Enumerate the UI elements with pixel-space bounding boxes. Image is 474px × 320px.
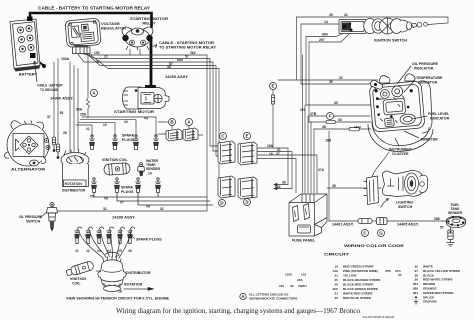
svg-text:30: 30 bbox=[338, 118, 342, 122]
leader cable-battery-to-ground label with arrow bbox=[33, 61, 37, 82]
wire riser x296 top bbox=[296, 17, 298, 80]
svg-text:286: 286 bbox=[326, 139, 332, 143]
ignition coil (hi-tension view) bbox=[65, 261, 94, 278]
svg-text:FUSE PANEL: FUSE PANEL bbox=[292, 239, 316, 243]
connector pair C/E right block bbox=[238, 142, 257, 165]
ground symbol row bbox=[414, 299, 418, 304]
svg-text:14300 ASSY.: 14300 ASSY. bbox=[50, 96, 74, 101]
svg-text:AMMETER: AMMETER bbox=[420, 138, 438, 142]
wire long riser x308 bbox=[307, 116, 309, 193]
svg-text:VIEW SHOWING HI-TENSION CIRCUI: VIEW SHOWING HI-TENSION CIRCUIT FOR 6 CY… bbox=[66, 297, 170, 301]
wire: coil feed risers bbox=[70, 62, 78, 155]
starting motor relay bbox=[122, 27, 153, 50]
svg-text:SHOWN INDICATE CONNECTORS: SHOWN INDICATE CONNECTORS bbox=[249, 297, 297, 301]
svg-text:G: G bbox=[379, 231, 383, 236]
svg-text:286: 286 bbox=[413, 287, 418, 291]
distributor (engine view) bbox=[61, 150, 89, 187]
svg-text:26: 26 bbox=[335, 283, 339, 287]
svg-text:14: 14 bbox=[324, 20, 328, 24]
svg-text:262: 262 bbox=[190, 51, 196, 55]
leader spark plugs 6cyl label bbox=[131, 236, 136, 239]
leader oil pressure indicator bbox=[397, 66, 411, 84]
svg-text:16: 16 bbox=[118, 290, 122, 294]
svg-text:E: E bbox=[272, 84, 275, 89]
wire 38 stub to x329 bbox=[320, 129, 329, 131]
svg-text:WHITE: WHITE bbox=[423, 265, 433, 269]
svg-text:35: 35 bbox=[60, 111, 64, 115]
svg-text:INDICATOR: INDICATOR bbox=[414, 67, 434, 71]
svg-text:38: 38 bbox=[282, 181, 286, 185]
svg-text:152A: 152A bbox=[285, 273, 293, 277]
svg-text:21: 21 bbox=[335, 274, 339, 278]
connector circle E bbox=[270, 83, 277, 90]
svg-text:#7: #7 bbox=[120, 201, 124, 205]
svg-text:STARTING MOTOR: STARTING MOTOR bbox=[114, 109, 154, 114]
svg-text:#8: #8 bbox=[146, 205, 150, 209]
connector circle E bbox=[244, 133, 251, 140]
wire: thick cable relay to starting motor bbox=[150, 40, 153, 87]
instrument cluster bezel bbox=[369, 81, 425, 132]
wire: bus line 57 bbox=[83, 53, 218, 146]
svg-text:BLACK-ORANGE STRIPE: BLACK-ORANGE STRIPE bbox=[343, 278, 380, 282]
svg-text:26A: 26A bbox=[297, 278, 303, 282]
svg-text:30: 30 bbox=[334, 101, 338, 105]
svg-text:#2: #2 bbox=[86, 249, 90, 253]
wire long riser x311 bbox=[310, 122, 312, 193]
svg-text:RED-GREEN STRIPE: RED-GREEN STRIPE bbox=[343, 265, 374, 269]
svg-text:30: 30 bbox=[415, 265, 419, 269]
svg-text:#2: #2 bbox=[103, 123, 107, 127]
wire riser x306 bbox=[305, 37, 307, 106]
wire fuel sender line bbox=[329, 220, 447, 222]
wire 35 fuse panel to lighting switch bbox=[327, 187, 381, 189]
svg-text:31: 31 bbox=[160, 207, 164, 211]
svg-text:INDICATOR: INDICATOR bbox=[430, 117, 450, 121]
wire riser x309 bbox=[308, 42, 310, 122]
wire cluster to lighting switch curve bbox=[372, 152, 389, 177]
plug wire bus #1 bbox=[76, 125, 92, 136]
svg-text:CABLE - BATTERY TO STARTING MO: CABLE - BATTERY TO STARTING MOTOR RELAY bbox=[38, 6, 150, 11]
wire 21 pair1 to riser bbox=[257, 152, 292, 189]
instrument cluster dash swoosh outer bbox=[368, 124, 433, 151]
svg-text:PLUGS: PLUGS bbox=[121, 190, 134, 194]
svg-text:BROWN: BROWN bbox=[423, 282, 436, 286]
svg-text:37: 37 bbox=[96, 60, 100, 64]
svg-text:ORANGE: ORANGE bbox=[423, 287, 437, 291]
svg-text:SWITCH: SWITCH bbox=[398, 205, 413, 209]
svg-text:#1: #1 bbox=[86, 127, 90, 131]
svg-text:SENDER: SENDER bbox=[146, 167, 161, 171]
wire top line 14 bbox=[301, 23, 340, 25]
wire: bus line 38 bbox=[88, 53, 222, 182]
fusible link riser 37 bbox=[52, 137, 55, 152]
svg-text:BLACK-GREEN STRIPE: BLACK-GREEN STRIPE bbox=[343, 287, 378, 291]
svg-text:14A: 14A bbox=[332, 269, 338, 273]
wire vertical 286 x329 down bbox=[328, 131, 330, 221]
wire: thick cable battery to starting motor relay bbox=[30, 13, 152, 27]
svg-text:#4: #4 bbox=[107, 249, 111, 253]
svg-text:SPARK: SPARK bbox=[122, 134, 135, 138]
svg-text:RED-WHITE STRIPE: RED-WHITE STRIPE bbox=[423, 278, 453, 282]
svg-text:14289 ASSY.: 14289 ASSY. bbox=[112, 215, 136, 220]
svg-text:SPARK: SPARK bbox=[121, 186, 134, 190]
svg-text:14290 ASSY.: 14290 ASSY. bbox=[165, 74, 189, 79]
svg-text:D: D bbox=[245, 200, 248, 205]
wires to row 2 plug tips bbox=[94, 193, 158, 206]
wire: resistor wire drop with zigzag bbox=[87, 55, 90, 118]
svg-text:37A: 37A bbox=[395, 269, 401, 273]
water temperature sender bbox=[138, 163, 145, 176]
connector circle A bbox=[186, 119, 193, 126]
svg-text:IGNITION COIL: IGNITION COIL bbox=[102, 158, 128, 162]
svg-text:38: 38 bbox=[167, 65, 171, 69]
resistor capsule line y129 bbox=[349, 127, 360, 130]
wire 37 pair1 riser to fuse panel bbox=[257, 155, 317, 193]
svg-text:SWITCH: SWITCH bbox=[26, 220, 41, 224]
svg-text:REGULATOR: REGULATOR bbox=[101, 26, 126, 31]
wire: bus line 604 bbox=[77, 53, 218, 151]
svg-text:F: F bbox=[329, 114, 332, 119]
distributor cap leads 6cyl bbox=[79, 230, 104, 259]
svg-text:THRU: THRU bbox=[298, 284, 307, 288]
svg-text:BLACK-RED STRIPE: BLACK-RED STRIPE bbox=[343, 283, 373, 287]
distributor (hi-tension view) bbox=[98, 256, 126, 292]
plug wire bus #4 bbox=[82, 117, 156, 136]
svg-text:30: 30 bbox=[290, 284, 294, 288]
voltage regulator bbox=[65, 18, 101, 47]
arrowheads into connector D pair bbox=[274, 183, 277, 190]
svg-text:#6: #6 bbox=[104, 197, 108, 201]
svg-text:GROUND: GROUND bbox=[423, 300, 438, 304]
wire line y84 to cluster bbox=[301, 83, 373, 85]
connector circle G bbox=[378, 230, 385, 237]
svg-text:BLACK-YELLOW STRIPE: BLACK-YELLOW STRIPE bbox=[423, 269, 460, 273]
svg-text:31: 31 bbox=[335, 292, 339, 296]
svg-text:31: 31 bbox=[103, 207, 107, 211]
plug wire bus #3 bbox=[80, 120, 136, 136]
connector circle A bbox=[91, 90, 98, 97]
svg-text:RED-BLUE STRIPE: RED-BLUE STRIPE bbox=[343, 296, 371, 300]
fuse panel bbox=[289, 194, 327, 236]
svg-text:152A: 152A bbox=[354, 125, 362, 129]
svg-text:SPLICE: SPLICE bbox=[423, 295, 434, 299]
connector pair D right block bbox=[238, 177, 257, 199]
instrument cluster mounting tabs bbox=[380, 76, 390, 83]
svg-text:INSTRUMENT: INSTRUMENT bbox=[389, 148, 413, 152]
wire oil pressure switch to line 31 bbox=[52, 206, 57, 211]
fuel tank sender bbox=[446, 216, 466, 229]
wire line 38 y129 to cluster bbox=[314, 128, 371, 130]
svg-text:297: 297 bbox=[279, 284, 284, 288]
svg-text:E: E bbox=[246, 134, 249, 139]
svg-text:30A: 30A bbox=[378, 97, 384, 101]
svg-text:Wiring diagram for the ignitio: Wiring diagram for the ignition, startin… bbox=[116, 306, 360, 315]
svg-text:57: 57 bbox=[185, 55, 189, 59]
svg-text:TEMPERATURE: TEMPERATURE bbox=[416, 76, 443, 80]
wire line 37B y116 to cluster bbox=[309, 115, 370, 117]
svg-text:39: 39 bbox=[329, 80, 333, 84]
wire 16A pair1 to riser bbox=[257, 148, 288, 185]
svg-text:37: 37 bbox=[415, 269, 419, 273]
cluster top-left terminal blob bbox=[370, 80, 382, 89]
wire: bus line 57b bbox=[86, 53, 218, 156]
connector pair C/E left block bbox=[218, 141, 235, 164]
wire long riser x305 bbox=[304, 105, 306, 193]
wire: bus line 152 bbox=[80, 53, 207, 211]
starting motor bbox=[123, 85, 170, 109]
svg-text:153A: 153A bbox=[61, 57, 70, 61]
wire from plug bus to circled B bbox=[158, 121, 168, 123]
svg-text:#6: #6 bbox=[128, 249, 132, 253]
svg-text:16A: 16A bbox=[267, 144, 274, 148]
lighting switch pointer arrow bbox=[381, 199, 389, 208]
svg-text:37: 37 bbox=[276, 152, 280, 156]
fusible link riser 35 bbox=[56, 144, 59, 159]
svg-text:ROTATION: ROTATION bbox=[65, 182, 83, 186]
svg-text:IGNITION: IGNITION bbox=[70, 277, 86, 281]
svg-text:37: 37 bbox=[47, 115, 51, 119]
leader arrow cable-starting-motor label bbox=[153, 45, 157, 48]
capsule on fuel line bbox=[358, 219, 372, 224]
spark plugs row 1 (#1-#4) bbox=[89, 135, 95, 150]
wire pair1 4th bbox=[257, 159, 296, 194]
svg-text:262: 262 bbox=[413, 282, 418, 286]
svg-text:LIGHTING: LIGHTING bbox=[396, 201, 413, 205]
svg-text:16: 16 bbox=[335, 265, 339, 269]
svg-text:PINK (RESISTOR WIRE): PINK (RESISTOR WIRE) bbox=[343, 269, 378, 273]
svg-text:OIL PRESSURE: OIL PRESSURE bbox=[19, 215, 43, 219]
wire line y80 to cluster bbox=[278, 79, 378, 81]
svg-text:57: 57 bbox=[440, 226, 444, 230]
connector circle B bbox=[169, 119, 176, 126]
arrow wire 16 bbox=[148, 288, 154, 291]
connector circle D bbox=[219, 200, 226, 207]
voltage regulator connector bbox=[73, 47, 91, 54]
ignition coil (engine view) bbox=[104, 163, 131, 176]
ignition switch bbox=[339, 18, 427, 34]
svg-text:SENDER: SENDER bbox=[448, 211, 463, 215]
instrument cluster back panel bbox=[420, 81, 432, 133]
svg-text:39: 39 bbox=[329, 13, 333, 17]
oil pressure switch bbox=[47, 202, 58, 231]
splice symbol row bbox=[415, 296, 417, 298]
svg-text:26: 26 bbox=[63, 131, 67, 135]
svg-text:DISTRIBUTOR: DISTRIBUTOR bbox=[62, 189, 86, 193]
svg-text:14405 ASSY.: 14405 ASSY. bbox=[397, 223, 419, 227]
svg-text:#1: #1 bbox=[75, 249, 79, 253]
svg-text:26A: 26A bbox=[76, 108, 83, 112]
spark plugs 6-cyl view bbox=[74, 227, 81, 244]
wire hi-tension 16 output bbox=[124, 288, 148, 290]
svg-text:286: 286 bbox=[434, 217, 440, 221]
spark plugs row 2 (#5-#8) bbox=[91, 178, 97, 193]
wire top line 39-21 to ignition switch bbox=[297, 17, 449, 25]
svg-text:37B: 37B bbox=[310, 112, 317, 116]
svg-text:#5: #5 bbox=[118, 249, 122, 253]
svg-text:37B: 37B bbox=[385, 269, 391, 273]
wire 31 long line bbox=[57, 210, 207, 212]
wire long riser x314 bbox=[313, 129, 315, 193]
svg-text:27A: 27A bbox=[318, 168, 325, 172]
svg-text:152: 152 bbox=[94, 51, 100, 55]
connector circle A bbox=[240, 293, 246, 299]
svg-text:297: 297 bbox=[300, 108, 306, 112]
svg-text:ROTATION: ROTATION bbox=[124, 283, 143, 287]
svg-text:39: 39 bbox=[415, 278, 419, 282]
alternator bbox=[4, 121, 50, 167]
svg-text:904: 904 bbox=[413, 291, 418, 295]
svg-text:32: 32 bbox=[335, 296, 339, 300]
svg-text:OIL PRESSURE: OIL PRESSURE bbox=[412, 62, 439, 66]
wire 904 to ignition switch bbox=[306, 33, 344, 37]
svg-text:25: 25 bbox=[335, 278, 339, 282]
wire line 30 resistor y122 to cluster bbox=[309, 121, 371, 123]
wire long riser x302 bbox=[302, 55, 304, 193]
svg-text:FUEL LEVEL: FUEL LEVEL bbox=[428, 112, 450, 116]
connector circle C bbox=[220, 133, 227, 140]
svg-text:57: 57 bbox=[398, 273, 402, 277]
svg-text:RELAY: RELAY bbox=[142, 21, 156, 26]
svg-text:DISTRIBUTOR: DISTRIBUTOR bbox=[126, 271, 151, 275]
leader fuel level indicator bbox=[412, 116, 427, 119]
svg-text:B: B bbox=[170, 120, 173, 125]
svg-text:#3: #3 bbox=[97, 249, 101, 253]
plug wire bus #2 bbox=[78, 122, 115, 136]
connector B block (engine harness) bbox=[166, 129, 182, 141]
wire ground cable battery bbox=[33, 57, 43, 65]
svg-text:WHITE-RED STRIPE: WHITE-RED STRIPE bbox=[343, 292, 373, 296]
connector A block (engine harness) bbox=[183, 128, 198, 141]
svg-text:152: 152 bbox=[301, 273, 306, 277]
svg-text:ALTERNATOR: ALTERNATOR bbox=[11, 167, 45, 172]
connector pair D left block bbox=[218, 176, 235, 198]
fuse on circled-E drop bbox=[272, 95, 275, 104]
wire coil2 to distributor2 bbox=[96, 270, 100, 272]
battery bbox=[10, 17, 46, 72]
svg-text:14401 ASSY.: 14401 ASSY. bbox=[332, 223, 354, 227]
lighting switch bbox=[382, 171, 427, 197]
wire riser x301 bbox=[300, 24, 302, 84]
svg-text:25A: 25A bbox=[80, 113, 87, 117]
svg-text:INDICATOR: INDICATOR bbox=[418, 81, 438, 85]
connector G on fuel line bbox=[377, 218, 388, 225]
svg-text:CIRCUIT: CIRCUIT bbox=[324, 253, 351, 257]
svg-text:CLUSTER: CLUSTER bbox=[392, 152, 409, 156]
svg-text:CABLE - STARTING MOTOR: CABLE - STARTING MOTOR bbox=[159, 41, 214, 45]
svg-text:297: 297 bbox=[319, 38, 325, 42]
svg-text:CABLE - BATTERY: CABLE - BATTERY bbox=[37, 84, 63, 88]
svg-text:IGNITION SWITCH: IGNITION SWITCH bbox=[374, 39, 407, 43]
svg-text:30C: 30C bbox=[332, 287, 338, 291]
wire 297 to ignition switch bbox=[309, 33, 350, 42]
svg-text:21: 21 bbox=[344, 13, 348, 17]
svg-text:GREEN-RED STRIPE: GREEN-RED STRIPE bbox=[423, 291, 454, 295]
wire: relay drops bbox=[130, 49, 140, 55]
svg-text:38: 38 bbox=[415, 273, 419, 277]
leader oil pressure switch label bbox=[40, 212, 47, 218]
connector stubs below circles A B bbox=[172, 126, 189, 130]
svg-text:PLUGS: PLUGS bbox=[122, 138, 135, 142]
svg-text:TO STARTING MOTOR RELAY: TO STARTING MOTOR RELAY bbox=[159, 46, 216, 50]
svg-text:35: 35 bbox=[332, 184, 336, 188]
rotation arrow on cap bbox=[105, 252, 120, 256]
resistor capsule line y122 bbox=[326, 120, 336, 123]
svg-text:YELLOW: YELLOW bbox=[343, 274, 356, 278]
wire: alternator risers bbox=[54, 59, 58, 145]
svg-text:TO GROUND: TO GROUND bbox=[40, 88, 58, 92]
svg-text:904: 904 bbox=[322, 33, 328, 37]
hi-tension collector wires bbox=[94, 197, 213, 205]
svg-text:#5: #5 bbox=[90, 195, 94, 199]
connector circle C bbox=[362, 230, 369, 237]
svg-text:BATTERY: BATTERY bbox=[19, 72, 38, 77]
svg-text:16: 16 bbox=[269, 152, 273, 156]
svg-text:WIRING COLOR CODE: WIRING COLOR CODE bbox=[344, 244, 405, 248]
connector circle F bbox=[327, 113, 334, 120]
wire line 30 y105 to cluster bbox=[306, 104, 372, 106]
svg-text:SPARK PLUGS: SPARK PLUGS bbox=[136, 238, 162, 242]
leader temperature indicator bbox=[404, 80, 415, 92]
svg-text:21: 21 bbox=[104, 55, 108, 59]
instrument cluster dash swoosh inner bbox=[372, 122, 429, 146]
fuel sender ground resistor bbox=[447, 230, 455, 246]
svg-text:31: 31 bbox=[339, 76, 343, 80]
connector circle D bbox=[244, 199, 251, 206]
svg-text:#4: #4 bbox=[144, 117, 148, 121]
svg-text:#3: #3 bbox=[124, 120, 128, 124]
svg-text:*COLOR SHOWN IS SIMILAR: *COLOR SHOWN IS SIMILAR bbox=[362, 316, 395, 319]
svg-text:14: 14 bbox=[148, 172, 152, 176]
leader ammeter bbox=[404, 131, 419, 138]
svg-text:604: 604 bbox=[177, 58, 183, 62]
svg-text:38: 38 bbox=[322, 125, 326, 129]
leader instrument cluster bbox=[395, 138, 399, 146]
svg-text:D: D bbox=[220, 201, 223, 206]
connector behind cluster bbox=[364, 176, 379, 205]
svg-text:COIL: COIL bbox=[72, 282, 81, 286]
wire circled E drop with fuse bbox=[272, 90, 274, 148]
svg-text:904: 904 bbox=[275, 185, 281, 189]
svg-text:BLACK: BLACK bbox=[423, 273, 435, 277]
